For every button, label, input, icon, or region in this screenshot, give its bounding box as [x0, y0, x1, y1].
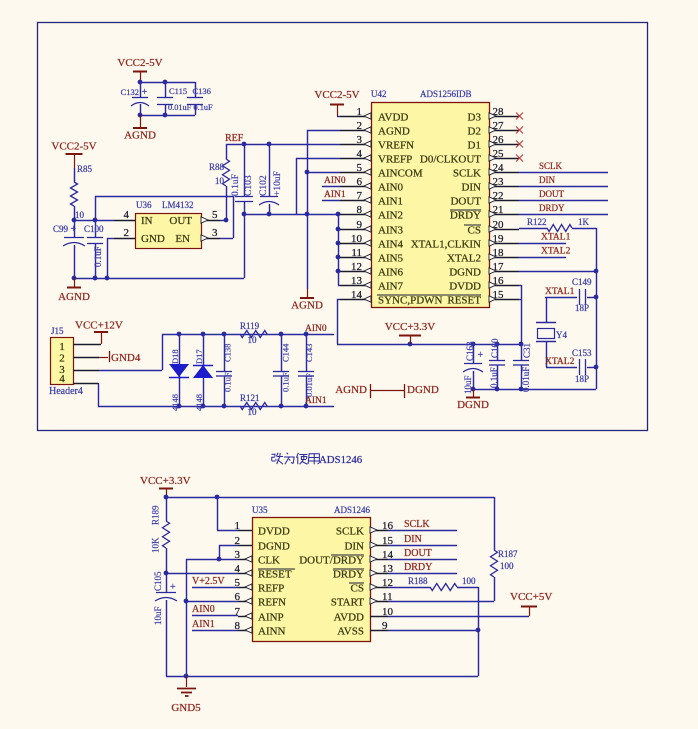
svg-text:XTAL2: XTAL2 — [541, 247, 571, 257]
svg-text:DOUT/DRDY: DOUT/DRDY — [299, 555, 364, 567]
svg-text:ADS1246: ADS1246 — [334, 505, 371, 515]
svg-text:GND4: GND4 — [111, 352, 141, 364]
svg-text:1K: 1K — [578, 217, 590, 227]
svg-text:9: 9 — [357, 219, 363, 231]
svg-text:6: 6 — [357, 176, 363, 188]
svg-text:R187: R187 — [498, 549, 518, 559]
svg-text:RESET: RESET — [447, 295, 481, 307]
svg-text:AINP: AINP — [258, 612, 284, 624]
svg-text:C132: C132 — [121, 87, 139, 97]
svg-text:AGND: AGND — [378, 126, 410, 138]
svg-text:C102: C102 — [259, 175, 269, 196]
svg-text:2: 2 — [357, 120, 363, 132]
svg-text:XTAL1: XTAL1 — [541, 233, 571, 243]
svg-text:Y4: Y4 — [556, 330, 567, 340]
svg-text:AGND: AGND — [58, 291, 90, 303]
svg-text:22: 22 — [493, 190, 504, 202]
svg-text:0.1uF: 0.1uF — [489, 367, 499, 388]
svg-text:Header4: Header4 — [49, 386, 83, 397]
svg-text:4148: 4148 — [170, 394, 180, 411]
svg-text:0.1uF: 0.1uF — [194, 103, 214, 112]
svg-text:RESET: RESET — [258, 569, 292, 581]
svg-text:5: 5 — [212, 209, 218, 221]
svg-text:D17: D17 — [194, 349, 204, 364]
svg-text:DRDY: DRDY — [333, 569, 364, 581]
svg-text:START: START — [331, 597, 365, 609]
svg-text:18: 18 — [493, 247, 505, 259]
svg-text:+: + — [478, 350, 484, 361]
svg-text:AIN0: AIN0 — [192, 604, 215, 615]
svg-text:7: 7 — [357, 190, 363, 202]
svg-text:GND: GND — [141, 233, 165, 245]
svg-text:DOUT: DOUT — [539, 189, 564, 199]
svg-text:DVDD: DVDD — [449, 281, 481, 293]
svg-text:27: 27 — [493, 120, 505, 132]
svg-text:VCC+12V: VCC+12V — [75, 320, 123, 332]
svg-text:AIN6: AIN6 — [378, 267, 404, 279]
svg-text:19: 19 — [493, 233, 505, 245]
svg-text:0.1uF: 0.1uF — [231, 174, 241, 196]
svg-text:D1: D1 — [468, 140, 481, 152]
svg-text:R188: R188 — [408, 576, 428, 586]
svg-text:2: 2 — [124, 227, 130, 239]
svg-text:AIN1: AIN1 — [324, 190, 346, 200]
svg-text:R122: R122 — [527, 217, 547, 227]
svg-text:C153: C153 — [572, 348, 592, 358]
svg-text:+: + — [142, 87, 148, 98]
svg-text:D18: D18 — [170, 349, 180, 364]
svg-text:SYNC,PDWN: SYNC,PDWN — [378, 295, 443, 307]
svg-text:AIN5: AIN5 — [378, 253, 404, 265]
svg-text:2: 2 — [235, 535, 241, 547]
svg-text:C31: C31 — [522, 343, 532, 358]
svg-text:SCLK: SCLK — [453, 168, 481, 180]
svg-text:DIN: DIN — [461, 182, 481, 194]
svg-text:+: + — [170, 582, 176, 593]
svg-text:SCLK: SCLK — [336, 526, 364, 538]
svg-text:AGND: AGND — [124, 130, 156, 142]
svg-text:CS: CS — [468, 225, 481, 237]
svg-text:DRDY: DRDY — [539, 203, 565, 213]
svg-text:AVDD: AVDD — [378, 112, 408, 124]
svg-text:DGND: DGND — [449, 267, 481, 279]
svg-text:REFP: REFP — [258, 583, 284, 595]
svg-text:0.1uF: 0.1uF — [93, 246, 103, 267]
svg-text:R88: R88 — [209, 162, 225, 172]
svg-text:15: 15 — [493, 289, 505, 301]
svg-text:SCLK: SCLK — [404, 519, 430, 530]
svg-text:AINN: AINN — [258, 626, 286, 638]
svg-text:LM4132: LM4132 — [162, 200, 194, 210]
svg-text:XTAL2: XTAL2 — [545, 357, 575, 367]
svg-text:10: 10 — [248, 335, 258, 345]
svg-text:SCLK: SCLK — [539, 161, 563, 171]
svg-text:1: 1 — [357, 106, 363, 118]
svg-text:XTAL1: XTAL1 — [545, 287, 575, 297]
svg-text:1: 1 — [59, 341, 65, 353]
svg-text:10uF: 10uF — [463, 375, 473, 394]
svg-text:4: 4 — [357, 148, 363, 160]
svg-text:V+2.5V: V+2.5V — [192, 576, 225, 587]
svg-text:C163: C163 — [465, 341, 475, 361]
svg-text:AVSS: AVSS — [337, 626, 364, 638]
svg-text:AIN4: AIN4 — [378, 239, 404, 251]
svg-text:20: 20 — [493, 219, 505, 231]
svg-text:AIN1: AIN1 — [305, 396, 327, 406]
svg-text:VCC+3.3V: VCC+3.3V — [140, 475, 191, 487]
svg-text:CS: CS — [351, 583, 364, 595]
svg-text:C99: C99 — [53, 224, 69, 234]
svg-text:AIN2: AIN2 — [378, 210, 403, 222]
svg-text:21: 21 — [493, 204, 504, 216]
svg-text:4148: 4148 — [194, 394, 204, 411]
svg-text:D0/CLKOUT: D0/CLKOUT — [420, 154, 481, 166]
svg-text:D3: D3 — [468, 112, 482, 124]
svg-text:C143: C143 — [304, 344, 314, 362]
svg-text:IN: IN — [141, 215, 153, 227]
svg-text:C144: C144 — [281, 343, 291, 362]
svg-text:3: 3 — [212, 227, 218, 239]
svg-text:VCC+3.3V: VCC+3.3V — [385, 321, 436, 333]
svg-text:AIN0: AIN0 — [305, 324, 327, 334]
svg-text:AGND: AGND — [291, 300, 323, 312]
svg-text:18P: 18P — [575, 303, 589, 313]
svg-text:8: 8 — [357, 204, 363, 216]
svg-text:EN: EN — [175, 233, 190, 245]
svg-text:10: 10 — [215, 176, 225, 186]
svg-text:OUT: OUT — [169, 215, 192, 227]
svg-text:U35: U35 — [252, 505, 268, 515]
svg-text:AVDD: AVDD — [334, 612, 364, 624]
svg-text:REFN: REFN — [258, 597, 286, 609]
svg-text:AGND: AGND — [335, 384, 367, 396]
svg-text:XTAL2: XTAL2 — [447, 253, 481, 265]
svg-text:C160: C160 — [490, 338, 500, 358]
svg-text:24: 24 — [493, 162, 505, 174]
svg-text:VREFN: VREFN — [378, 140, 414, 152]
svg-text:C115: C115 — [169, 86, 187, 96]
svg-text:ADS1246: ADS1246 — [319, 454, 363, 466]
svg-text:14: 14 — [351, 289, 363, 301]
svg-text:100: 100 — [462, 576, 476, 586]
svg-text:16: 16 — [493, 275, 505, 287]
svg-text:10uF: 10uF — [153, 606, 163, 625]
svg-text:C103: C103 — [244, 175, 254, 196]
svg-text:8: 8 — [235, 620, 241, 632]
svg-text:U36: U36 — [136, 200, 152, 210]
svg-text:6: 6 — [235, 591, 241, 603]
svg-text:DGND: DGND — [407, 384, 439, 396]
svg-text:REF: REF — [225, 133, 244, 144]
svg-text:2: 2 — [59, 353, 65, 365]
svg-text:R189: R189 — [151, 505, 161, 525]
svg-text:DOUT: DOUT — [404, 548, 432, 559]
svg-text:DIN: DIN — [404, 534, 422, 545]
svg-text:DOUT: DOUT — [450, 196, 481, 208]
svg-text:+10uF: +10uF — [273, 171, 283, 196]
svg-text:+: + — [71, 224, 77, 235]
svg-text:5: 5 — [357, 162, 363, 174]
svg-text:AIN0: AIN0 — [324, 176, 346, 186]
svg-text:0.1uF: 0.1uF — [281, 372, 291, 392]
svg-text:10: 10 — [248, 407, 258, 417]
svg-text:12: 12 — [351, 261, 362, 273]
svg-text:VCC2-5V: VCC2-5V — [51, 141, 96, 153]
svg-text:AIN7: AIN7 — [378, 281, 404, 293]
svg-text:DIN: DIN — [539, 175, 555, 185]
svg-text:J15: J15 — [51, 326, 64, 336]
svg-text:0.01uF: 0.01uF — [304, 373, 314, 397]
svg-text:VCC2-5V: VCC2-5V — [314, 89, 359, 101]
svg-text:ADS1256IDB: ADS1256IDB — [420, 89, 472, 99]
svg-text:DGND: DGND — [457, 399, 489, 411]
svg-text:17: 17 — [493, 261, 505, 273]
svg-text:3: 3 — [235, 549, 241, 561]
svg-text:10: 10 — [75, 210, 85, 220]
svg-text:DGND: DGND — [258, 541, 290, 553]
svg-text:VCC+5V: VCC+5V — [510, 591, 552, 603]
svg-text:9: 9 — [382, 620, 388, 632]
svg-text:10: 10 — [351, 233, 363, 245]
svg-text:CLK: CLK — [258, 555, 280, 567]
svg-text:VREFP: VREFP — [378, 154, 412, 166]
svg-text:R85: R85 — [77, 164, 93, 174]
svg-text:10K: 10K — [151, 537, 161, 553]
svg-text:C138: C138 — [223, 344, 233, 362]
svg-text:4: 4 — [124, 209, 130, 221]
svg-text:AIN0: AIN0 — [378, 182, 404, 194]
svg-text:11: 11 — [351, 247, 362, 259]
svg-text:VCC2-5V: VCC2-5V — [117, 57, 162, 69]
svg-text:D2: D2 — [468, 126, 481, 138]
svg-text:3: 3 — [357, 134, 363, 146]
svg-text:23: 23 — [493, 176, 505, 188]
svg-text:0.1uF: 0.1uF — [223, 372, 233, 392]
svg-text:AINCOM: AINCOM — [378, 168, 423, 180]
svg-text:AIN3: AIN3 — [378, 225, 404, 237]
svg-text:C149: C149 — [572, 277, 592, 287]
svg-text:R119: R119 — [240, 321, 260, 331]
svg-text:C105: C105 — [153, 571, 163, 591]
svg-text:5: 5 — [235, 577, 241, 589]
svg-text:13: 13 — [351, 275, 363, 287]
svg-text:28: 28 — [493, 106, 505, 118]
svg-text:1: 1 — [235, 520, 241, 532]
svg-text:AIN1: AIN1 — [192, 619, 215, 630]
svg-text:4: 4 — [235, 563, 241, 575]
svg-text:18P: 18P — [575, 374, 589, 384]
svg-text:AIN1: AIN1 — [378, 196, 403, 208]
svg-text:DRDY: DRDY — [450, 210, 481, 222]
svg-text:26: 26 — [493, 134, 505, 146]
svg-text:DIN: DIN — [344, 541, 364, 553]
svg-text:DRDY: DRDY — [404, 562, 432, 573]
svg-text:GND5: GND5 — [171, 702, 201, 714]
svg-text:R121: R121 — [240, 393, 260, 403]
svg-text:C100: C100 — [84, 224, 104, 234]
svg-text:25: 25 — [493, 148, 505, 160]
svg-text:100: 100 — [500, 561, 514, 571]
svg-text:C136: C136 — [193, 86, 211, 96]
svg-text:4: 4 — [59, 373, 65, 385]
svg-text:DVDD: DVDD — [258, 526, 290, 538]
svg-text:7: 7 — [235, 606, 241, 618]
svg-text:U42: U42 — [371, 89, 387, 99]
svg-text:XTAL1,CLKIN: XTAL1,CLKIN — [411, 239, 481, 251]
